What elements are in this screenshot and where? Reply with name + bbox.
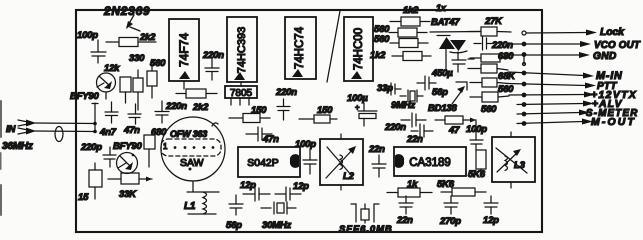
resistor 560 c bbox=[470, 78, 508, 87]
svg-text:L1: L1 bbox=[184, 201, 196, 212]
capacitor 47n mid bbox=[246, 127, 272, 141]
board border frame bbox=[76, 10, 542, 232]
svg-text:BAT47: BAT47 bbox=[431, 17, 460, 28]
resistor 150 b bbox=[299, 115, 337, 123]
svg-text:47: 47 bbox=[448, 125, 460, 136]
svg-text:BFY90: BFY90 bbox=[70, 91, 99, 102]
transistor Q2 BFY90 bottom bbox=[117, 153, 138, 174]
mixer U6 S042P bbox=[238, 147, 300, 177]
capacitor 100p above L2 bbox=[303, 150, 317, 174]
svg-text:4n7: 4n7 bbox=[99, 127, 117, 138]
capacitor 22n mid bbox=[372, 155, 386, 177]
line M-OUT bbox=[517, 119, 593, 126]
crystal 30MHz bbox=[261, 202, 296, 214]
svg-text:220n: 220n bbox=[491, 40, 513, 51]
svg-text:1k2: 1k2 bbox=[370, 50, 386, 61]
resistor 2k2 top-left bbox=[106, 38, 156, 47]
svg-text:560: 560 bbox=[481, 104, 497, 115]
svg-text:33p: 33p bbox=[377, 83, 393, 94]
svg-text:100p: 100p bbox=[77, 30, 98, 41]
SAW filter OFW bbox=[161, 117, 225, 181]
wire 74HC393 to 7805 bbox=[240, 82, 242, 86]
line LOCK bbox=[522, 30, 597, 36]
wire 74F74 to 2k2 bbox=[183, 81, 185, 89]
svg-text:2k2: 2k2 bbox=[139, 32, 156, 43]
capacitor 270p bottom bbox=[444, 196, 458, 214]
capacitor 100p top-left bbox=[91, 40, 106, 63]
svg-text:22n: 22n bbox=[396, 215, 413, 226]
resistor 68K bbox=[468, 64, 508, 73]
resistor 560 a bbox=[389, 28, 427, 37]
resistor 15 vertical bbox=[89, 163, 102, 199]
output lines with dots and arrows bbox=[508, 30, 597, 126]
resistor 680 right bbox=[470, 54, 510, 62]
crystal 9MHz bbox=[400, 90, 423, 102]
svg-text:SAW: SAW bbox=[180, 157, 204, 169]
IC U3 74HC74 bbox=[285, 17, 316, 79]
capacitor 22n (CA3189 input 2) bbox=[411, 124, 433, 138]
output labels bbox=[586, 26, 641, 128]
capacitor 100p near L3 bbox=[470, 121, 483, 150]
svg-text:BFY90: BFY90 bbox=[113, 141, 142, 152]
resistor 560 b bbox=[390, 39, 428, 48]
line PTT bbox=[508, 82, 596, 88]
svg-text:15: 15 bbox=[78, 192, 89, 203]
svg-text:5K6: 5K6 bbox=[437, 179, 455, 190]
capacitor 12p bottom bbox=[484, 196, 498, 214]
svg-text:150: 150 bbox=[317, 105, 333, 116]
svg-text:560: 560 bbox=[498, 84, 514, 95]
svg-text:47n: 47n bbox=[262, 134, 279, 145]
node post junction bbox=[92, 103, 98, 133]
regulator U5 7805 bbox=[225, 86, 257, 105]
divider slash bbox=[327, 11, 340, 82]
svg-text:74HC74: 74HC74 bbox=[294, 26, 306, 69]
svg-text:OFW 363: OFW 363 bbox=[170, 129, 207, 139]
svg-text:27K: 27K bbox=[484, 16, 503, 27]
svg-text:100p: 100p bbox=[466, 124, 487, 135]
electrolytic 450u bbox=[452, 59, 474, 72]
svg-text:220p: 220p bbox=[80, 142, 102, 153]
svg-text:L2: L2 bbox=[343, 171, 355, 182]
resistor 2k2 mid (below 74F74) bbox=[176, 89, 217, 98]
svg-text:22n: 22n bbox=[368, 144, 385, 155]
resistor stack 1k2 top bbox=[390, 17, 430, 26]
svg-text:BD138: BD138 bbox=[428, 103, 457, 114]
svg-text:1x: 1x bbox=[436, 3, 447, 13]
svg-text:2k2: 2k2 bbox=[192, 102, 209, 113]
capacitor 12p left bbox=[243, 187, 270, 201]
svg-text:M-OUT: M-OUT bbox=[591, 117, 636, 128]
svg-text:36MHz: 36MHz bbox=[2, 141, 33, 152]
resistor 560 vertical bbox=[147, 63, 157, 98]
resistor 47 bbox=[435, 116, 476, 124]
capacitor 56p osc bbox=[417, 76, 436, 90]
wire in 2 bbox=[34, 130, 95, 133]
svg-text:560: 560 bbox=[150, 58, 166, 69]
svg-text:100p: 100p bbox=[295, 139, 316, 150]
wire in 1 bbox=[34, 122, 95, 125]
capacitor 56p bottom bbox=[229, 195, 243, 215]
arrow 2N2369 bbox=[126, 15, 140, 31]
svg-text:12k: 12k bbox=[104, 63, 120, 74]
line S-METER bbox=[517, 110, 590, 116]
svg-text:74HC00: 74HC00 bbox=[353, 28, 365, 70]
svg-text:33K: 33K bbox=[119, 189, 137, 200]
resistor 5K6 bottom bbox=[441, 188, 486, 196]
scan edge smudge left bbox=[0, 100, 2, 216]
capacitor 220n between U1 U2 bbox=[205, 59, 219, 80]
transistor BD138 tuning arrow bbox=[452, 82, 467, 104]
resistor 1k2 b bbox=[392, 52, 431, 61]
line GND bbox=[510, 52, 590, 66]
capacitor 220n VCO bbox=[474, 37, 493, 50]
svg-text:100µ: 100µ bbox=[347, 93, 368, 104]
ceramic filter SFE6.0MB bbox=[351, 204, 379, 223]
svg-text:9MHz: 9MHz bbox=[391, 100, 415, 111]
svg-text:74HC393: 74HC393 bbox=[236, 27, 248, 73]
svg-text:12p: 12p bbox=[240, 180, 256, 191]
svg-text:1: 1 bbox=[163, 142, 168, 151]
svg-text:CA3189: CA3189 bbox=[409, 157, 451, 169]
IC U4 74HC00 bbox=[344, 17, 373, 81]
capacitor 220n mid top bbox=[277, 99, 290, 120]
IC U2 74HC393 bbox=[227, 17, 257, 82]
capacitor 4n7 bbox=[105, 102, 118, 123]
capacitor 22n bottom bbox=[399, 196, 413, 214]
capacitor 47n bbox=[128, 104, 141, 124]
svg-text:12p: 12p bbox=[483, 215, 499, 226]
svg-text:S042P: S042P bbox=[247, 157, 279, 169]
tank L3 bbox=[492, 132, 535, 188]
svg-text:56p: 56p bbox=[432, 87, 448, 98]
capacitor 220n (CA3189 input) bbox=[401, 113, 426, 127]
svg-text:Lock: Lock bbox=[600, 26, 625, 38]
svg-text:56p: 56p bbox=[226, 220, 242, 231]
svg-text:220n: 220n bbox=[165, 101, 187, 112]
resistor 330 (pair) bbox=[120, 77, 131, 103]
svg-text:330: 330 bbox=[129, 53, 145, 64]
svg-text:1k: 1k bbox=[407, 179, 418, 190]
svg-text:450µ: 450µ bbox=[431, 68, 453, 79]
capacitor 33p bbox=[384, 83, 401, 95]
svg-text:47n: 47n bbox=[123, 125, 140, 136]
svg-text:5K6: 5K6 bbox=[468, 169, 486, 180]
inductor L1 tank bbox=[187, 192, 219, 214]
resistor 27K bbox=[468, 27, 511, 36]
resistor 680 left vertical bbox=[144, 135, 155, 167]
svg-text:560: 560 bbox=[374, 34, 390, 45]
feedthrough bead bbox=[55, 127, 63, 142]
wire SAW to L1 bbox=[192, 181, 194, 192]
svg-text:680: 680 bbox=[498, 51, 514, 62]
svg-text:IN: IN bbox=[6, 124, 16, 135]
svg-text:30MHz: 30MHz bbox=[262, 220, 292, 231]
svg-text:L3: L3 bbox=[514, 160, 526, 171]
capacitor 220n left bbox=[155, 101, 169, 123]
svg-text:1k2: 1k2 bbox=[403, 5, 419, 16]
tank L2 bbox=[320, 134, 363, 190]
svg-text:2N2369: 2N2369 bbox=[103, 4, 150, 18]
svg-text:680: 680 bbox=[151, 127, 167, 138]
svg-text:74F74: 74F74 bbox=[177, 33, 191, 67]
transistor Q1 BFY90 top bbox=[97, 73, 116, 99]
svg-text:SFE6.0MB: SFE6.0MB bbox=[339, 224, 393, 235]
electrolytic 100u bbox=[355, 103, 377, 126]
capacitor 12p right bbox=[275, 187, 301, 201]
svg-text:220n: 220n bbox=[202, 50, 224, 61]
line M-IN bbox=[508, 71, 594, 78]
resistor 33K bbox=[108, 173, 152, 184]
resistor 560 d bbox=[470, 92, 509, 102]
svg-text:270p: 270p bbox=[439, 216, 461, 227]
svg-text:220n: 220n bbox=[384, 122, 406, 133]
IC U1 74F74 bbox=[169, 19, 199, 81]
svg-text:12p: 12p bbox=[293, 181, 309, 192]
line +ALV bbox=[517, 101, 594, 107]
svg-text:22n: 22n bbox=[406, 134, 423, 145]
svg-text:+: + bbox=[355, 103, 360, 112]
svg-text:7805: 7805 bbox=[230, 88, 253, 99]
capacitor 220p bbox=[103, 147, 116, 167]
IF IC U7 CA3189 bbox=[394, 147, 466, 176]
line +12VTX bbox=[509, 92, 595, 98]
input arrows IN 36MHz bbox=[2, 120, 95, 153]
line VCO OUT bbox=[511, 41, 591, 47]
svg-text:VCO OUT: VCO OUT bbox=[594, 40, 641, 51]
resistor 1k bottom bbox=[387, 188, 432, 197]
svg-text:150: 150 bbox=[251, 105, 267, 116]
svg-text:220n: 220n bbox=[275, 87, 297, 98]
resistor 5K6 vertical bbox=[476, 150, 486, 177]
resistor 150 a bbox=[229, 114, 270, 123]
svg-text:GND: GND bbox=[593, 51, 617, 62]
diodes BAT47 anti-parallel bbox=[430, 32, 480, 72]
